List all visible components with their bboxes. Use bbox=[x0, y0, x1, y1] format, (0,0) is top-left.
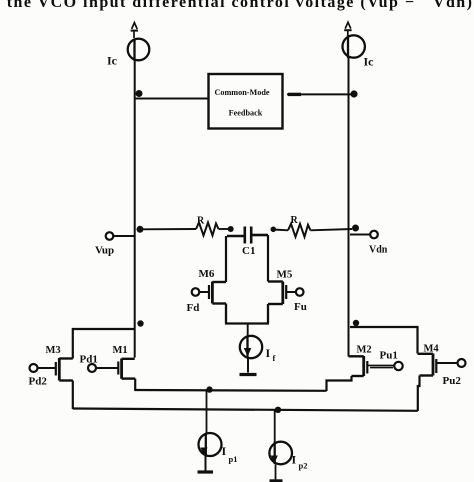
svg-text:R: R bbox=[291, 215, 299, 226]
capacitor C1 bbox=[227, 227, 268, 244]
wire: M6/M5 source join bbox=[225, 322, 269, 324]
svg-text:Vup: Vup bbox=[95, 245, 114, 257]
label M3 bbox=[46, 345, 61, 356]
transistor M4 bbox=[418, 354, 458, 376]
label If bbox=[266, 346, 276, 363]
wire: right supply arrow bbox=[344, 22, 351, 35]
svg-text:M3: M3 bbox=[46, 345, 61, 356]
wire: R to right rail bbox=[311, 229, 353, 230]
label M1 bbox=[113, 345, 128, 356]
transistor M5 bbox=[268, 282, 296, 305]
wire: cap-left node down to M6 drain bbox=[225, 236, 227, 282]
label Ic (right) bbox=[364, 55, 375, 69]
label Vdn bbox=[369, 245, 388, 256]
wire: M1 source drop bbox=[134, 379, 136, 390]
node: Ip1 junction bbox=[206, 386, 212, 392]
resistor R (right) bbox=[288, 224, 311, 237]
svg-text:Common-Mode: Common-Mode bbox=[214, 88, 269, 97]
label M5 bbox=[277, 269, 293, 281]
wire: box to right rail bbox=[287, 93, 352, 95]
transistor M6 bbox=[199, 282, 226, 304]
caption (clipped top text line) bbox=[0, 0, 472, 11]
block U1 Common-Mode Feedback bbox=[209, 74, 283, 129]
wire: If to ground bbox=[247, 358, 249, 373]
wire: right rail bbox=[348, 58, 350, 357]
node: right R tap bbox=[271, 227, 277, 233]
svg-text:M1: M1 bbox=[113, 345, 128, 356]
label Vup bbox=[95, 245, 114, 257]
terminal Fu bbox=[296, 288, 304, 296]
svg-text:p2: p2 bbox=[299, 461, 308, 471]
wire: M5 source down bbox=[267, 304, 269, 324]
svg-text:M2: M2 bbox=[357, 345, 372, 356]
wire: M3 source drop bbox=[72, 381, 74, 410]
svg-text:f: f bbox=[273, 353, 276, 363]
wire: cap-right node down to M5 drain bbox=[267, 235, 269, 282]
wire: tap to R (right) bbox=[273, 229, 288, 232]
wire: top link M3 drain to left rail bbox=[73, 329, 135, 359]
terminal Fd bbox=[192, 288, 200, 296]
wire: R to cap node bbox=[219, 228, 229, 230]
wire: tail down to If bbox=[247, 324, 249, 337]
terminal Vup bbox=[106, 232, 135, 240]
arrow inside Ip1 bbox=[200, 448, 207, 456]
wire: M2 source path to upper bus bbox=[327, 376, 352, 391]
label Ip1 bbox=[222, 444, 238, 464]
label M2 bbox=[357, 345, 372, 356]
transistor M3 bbox=[38, 358, 73, 381]
terminal Pd1 bbox=[88, 364, 96, 372]
ground (Ip2, clipped) bbox=[270, 479, 283, 482]
svg-text:Ic: Ic bbox=[364, 55, 375, 69]
svg-text:C1: C1 bbox=[242, 245, 255, 257]
wire: junction to Common-Mode Feedback box bbox=[135, 98, 208, 100]
node: left rail lower junction bbox=[137, 320, 143, 326]
label R (right) bbox=[291, 215, 299, 226]
svg-text:I: I bbox=[292, 453, 297, 467]
wire: Ip1 feed bbox=[206, 390, 208, 434]
svg-text:Feedback: Feedback bbox=[229, 109, 263, 118]
svg-text:M5: M5 bbox=[277, 269, 293, 281]
svg-text:M6: M6 bbox=[199, 268, 215, 280]
wire: Ip2 tail (cut at bottom) bbox=[275, 464, 277, 479]
wire: right rail to M4 drain bbox=[350, 327, 418, 354]
label Fu bbox=[294, 301, 307, 313]
wire: lower bus bbox=[73, 409, 418, 411]
label Fd bbox=[187, 302, 200, 314]
wire: left supply arrow bbox=[131, 23, 138, 38]
wire: upper bus bbox=[134, 389, 326, 392]
svg-text:Fu: Fu bbox=[294, 301, 307, 313]
node: Vdn / R junction bbox=[352, 225, 359, 232]
wire: node to R (left) bbox=[141, 228, 196, 230]
svg-text:p1: p1 bbox=[229, 454, 238, 464]
node: right CMF junction bbox=[350, 90, 357, 97]
arrow inside Ip2 bbox=[271, 456, 278, 464]
label Pu2 bbox=[443, 375, 462, 387]
current source If bbox=[240, 336, 262, 358]
wire: left rail bbox=[134, 61, 136, 358]
label Ic (left) bbox=[107, 54, 118, 68]
svg-text:Ic: Ic bbox=[107, 54, 118, 68]
wire: Ip2 feed bbox=[274, 411, 276, 443]
svg-text:Fd: Fd bbox=[187, 302, 200, 314]
wire: M4 source path to lower bus bbox=[418, 376, 420, 412]
resistor R (left) bbox=[196, 223, 219, 236]
node: Ip2 junction bbox=[275, 407, 281, 413]
label M4 bbox=[424, 344, 440, 355]
wire: Ip1 to ground bbox=[205, 456, 207, 471]
svg-text:Pu2: Pu2 bbox=[443, 375, 462, 387]
label R (left) bbox=[197, 216, 205, 227]
terminal Vdn bbox=[350, 231, 378, 239]
svg-text:I: I bbox=[222, 444, 227, 458]
label M6 bbox=[199, 268, 215, 280]
svg-text:I: I bbox=[266, 346, 271, 360]
wire: M6 source down bbox=[225, 304, 227, 324]
svg-text:to the VCO input differential: to the VCO input differential control vo… bbox=[0, 0, 472, 11]
label Pd1 bbox=[80, 354, 98, 366]
current source Ic (right) bbox=[343, 35, 365, 58]
label Ip2 bbox=[292, 453, 308, 471]
terminal Pu2 bbox=[458, 359, 466, 367]
arrow inside If bbox=[244, 348, 252, 357]
terminal Pu1 bbox=[394, 362, 402, 370]
svg-text:Vdn: Vdn bbox=[369, 245, 388, 256]
node: right rail lower junction bbox=[353, 320, 359, 326]
transistor M1 bbox=[96, 359, 135, 379]
current source Ip2 bbox=[269, 442, 292, 465]
current source Ip1 bbox=[199, 433, 222, 456]
label Pd2 bbox=[29, 376, 48, 388]
current source Ic (left) bbox=[128, 39, 150, 62]
svg-text:R: R bbox=[197, 216, 205, 227]
label C1 bbox=[242, 245, 255, 257]
label Pu1 bbox=[380, 350, 398, 362]
terminal Pd2 bbox=[30, 364, 38, 372]
ground (Ip1) bbox=[198, 470, 214, 473]
node: cap left bbox=[228, 226, 234, 232]
svg-text:Pd2: Pd2 bbox=[29, 376, 48, 388]
svg-text:Pu1: Pu1 bbox=[380, 350, 398, 362]
node: left CMF junction bbox=[136, 90, 143, 97]
node: Vup / R junction bbox=[137, 226, 144, 233]
svg-text:Pd1: Pd1 bbox=[80, 354, 98, 366]
transistor M2 bbox=[349, 356, 395, 376]
ground (If) bbox=[240, 373, 257, 376]
